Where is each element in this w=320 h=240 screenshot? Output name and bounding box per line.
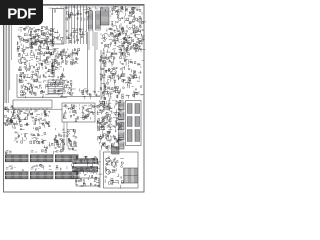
IC U401 cluster right-mid [99, 52, 132, 100]
node lower-left column [4, 105, 19, 125]
svg-text:PDF: PDF [7, 6, 36, 23]
wire left vertical bus [4, 25, 6, 103]
connector CN805 [30, 172, 54, 180]
IC U301 cluster center [50, 48, 80, 66]
block power supply outline [126, 101, 142, 146]
node between-row marks [9, 164, 77, 171]
connector CN806 [55, 172, 79, 180]
block IF module [62, 103, 95, 122]
IC U201 cluster top-right [110, 6, 147, 53]
wire top bus lower segment [60, 6, 140, 8]
wire long vertical channel left [87, 32, 89, 95]
PDF badge [0, 0, 43, 25]
connector P103 [101, 8, 110, 25]
node audio parts [105, 156, 124, 189]
resistor row below U101 [19, 60, 57, 79]
node bottom pre-row parts [42, 139, 77, 154]
block audio out outline [104, 152, 139, 188]
node DL101 pins [14, 108, 16, 110]
wire sub-board bottom edge [17, 96, 67, 98]
wire interconnect verticals [88, 30, 90, 50]
IC U101 cluster upper-left [17, 26, 56, 62]
connector stack CN701 [119, 102, 125, 110]
node center sparse parts [50, 65, 65, 86]
node bottom-left label marks [5, 151, 11, 157]
transistor Q801 [106, 158, 110, 162]
wire long vertical channel right [94, 32, 96, 95]
transistor Q803 [106, 170, 110, 174]
IC U701 cluster right-low [96, 100, 124, 151]
IC U801 array row 1 [73, 159, 99, 164]
transistor Q802 [111, 162, 115, 166]
block tuner TU101 [53, 9, 65, 45]
connector P102 [96, 11, 101, 30]
connector CN804b [124, 168, 138, 183]
IC U601 cluster in module [63, 104, 96, 121]
block bottom-center outline [76, 178, 99, 186]
node top-right mid cluster [101, 28, 145, 54]
IC U101 dense core [29, 27, 54, 47]
transistor Q601 group [54, 128, 77, 148]
wire vertical bus bundle [65, 5, 67, 44]
wire lower-left bus [5, 108, 62, 110]
connector CN702 seg1 [128, 104, 133, 114]
IC U801 array row 2 [73, 167, 99, 172]
connector CN703 seg1 [135, 104, 140, 114]
node tuner pins [54, 30, 64, 43]
wire top horizontal bus [43, 4, 144, 6]
node top bus ticks [49, 6, 141, 12]
connector CN803 [55, 155, 79, 163]
connector CN703 seg2 [135, 117, 140, 127]
wire sub-board left edge [16, 74, 18, 97]
node lower-left extra [14, 127, 47, 144]
wire module stubs [63, 122, 65, 150]
connector CN804 [5, 172, 29, 180]
node bottom-center parts [76, 177, 100, 187]
connector P101 [88, 11, 93, 30]
node bundle components lower [66, 29, 86, 43]
connector CN802 [30, 155, 54, 163]
node right-edge sparse parts [130, 61, 144, 99]
IC U801 array wires [71, 156, 102, 180]
connector CN704 [112, 147, 120, 155]
connector CN801 [5, 155, 29, 163]
IC U501 row lower-left [8, 110, 50, 129]
wire bottom-center vertical [99, 150, 101, 188]
block delay line DL101 [13, 100, 52, 108]
connector CN702 seg3 [128, 130, 133, 142]
wire center horizontal [60, 96, 100, 98]
node center-right small parts [80, 89, 101, 100]
connector CN702 seg2 [128, 117, 133, 127]
wire right vertical bus [100, 50, 102, 100]
transistor Q301 group [52, 79, 75, 96]
node bundle components [66, 12, 90, 21]
block filter FL101 [48, 80, 63, 94]
node sub-board interior parts [19, 74, 50, 98]
connector CN703 seg3 [135, 130, 140, 142]
page border frame [4, 5, 145, 193]
